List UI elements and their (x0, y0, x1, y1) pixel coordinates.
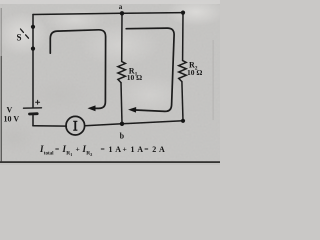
wire: left side, corner down to switch upper terminal (32, 15, 34, 28)
svg-text:10 Ω: 10 Ω (187, 68, 202, 77)
loop 2 arrowhead (128, 107, 136, 113)
svg-text:S: S (17, 33, 22, 43)
node b junction dot (120, 122, 124, 126)
label I (ammeter) (73, 121, 77, 131)
svg-text:2: 2 (90, 152, 92, 157)
wire: right corner down to resistor R2 (182, 13, 184, 61)
ammeter circle (66, 116, 85, 135)
svg-text:10 V: 10 V (4, 115, 20, 124)
paper background (0, 0, 220, 165)
svg-text:+: + (123, 145, 127, 154)
svg-text:1: 1 (70, 152, 72, 157)
svg-text:=: = (55, 145, 59, 154)
svg-text:total: total (44, 152, 54, 157)
svg-text:+: + (76, 145, 80, 154)
svg-text:a: a (119, 3, 123, 11)
current loop arrow 1 (left mesh) (50, 30, 105, 109)
svg-text:1 A: 1 A (131, 145, 144, 154)
switch S blade (dashed, shown closed) (21, 29, 31, 41)
svg-text:V: V (7, 106, 13, 115)
current loop arrow 2 (right mesh) (126, 28, 174, 111)
top right corner dot (181, 11, 185, 15)
bottom right corner dot (181, 119, 185, 123)
wire: node b to bottom right corner (122, 121, 183, 124)
resistor R1 zigzag (118, 62, 126, 83)
scan edge: left dark line (1, 8, 2, 56)
wire: resistor R2 to bottom right corner (182, 82, 183, 121)
wire: branch node a down to resistor R1 (121, 13, 123, 61)
switch upper terminal dot (31, 25, 35, 29)
svg-text:=: = (101, 145, 105, 154)
wire: top from left corner through node a to right corner (33, 13, 183, 15)
loop 1 arrowhead (88, 105, 96, 111)
wire: battery negative plate to bottom wire (32, 114, 34, 126)
wire: through switch S (closed) (32, 27, 34, 49)
svg-text:10 Ω: 10 Ω (127, 73, 142, 82)
svg-text:1 A: 1 A (109, 145, 122, 154)
resistor R2 zigzag (179, 61, 187, 82)
equation I_total = I_R1 + I_R2 = 1 A + 1 A = 2 A (39, 144, 165, 157)
switch lower terminal dot (31, 47, 35, 51)
scan edge: right faint streak (213, 40, 214, 120)
node a junction dot (120, 11, 124, 15)
wire: resistor R1 to node b (121, 83, 122, 124)
svg-text:2 A: 2 A (152, 145, 165, 154)
wire: ammeter to node b (85, 124, 122, 126)
svg-text:b: b (120, 132, 125, 141)
battery + polarity mark (36, 100, 40, 104)
wire: bottom left to ammeter (33, 125, 66, 127)
battery negative plate (short thick) (30, 112, 38, 115)
battery positive plate (long) (24, 107, 42, 109)
svg-text:=: = (144, 145, 148, 154)
scan edge: bottom dark rule (0, 161, 220, 163)
wire: switch to battery positive plate (32, 49, 34, 108)
